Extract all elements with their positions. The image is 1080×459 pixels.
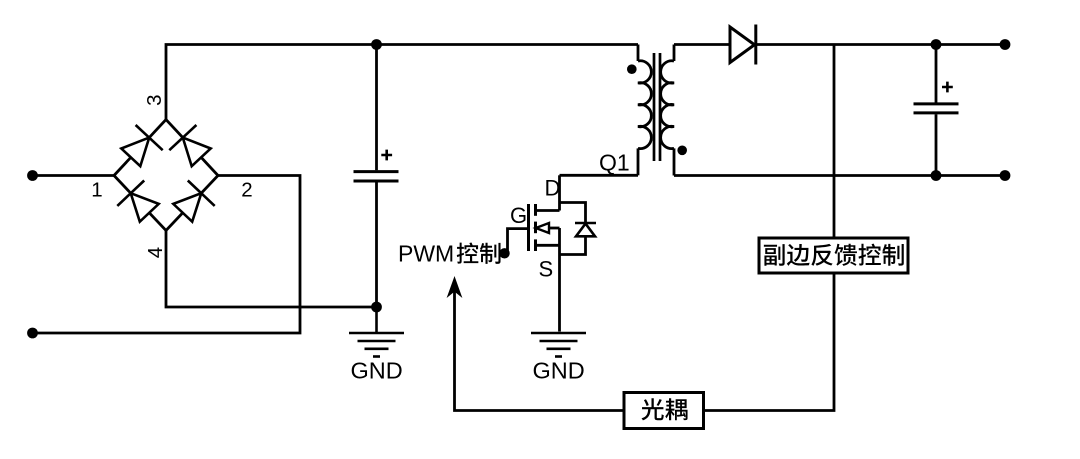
node: C1 bottom / GND junction <box>371 302 382 313</box>
svg-text:4: 4 <box>144 247 167 258</box>
svg-text:S: S <box>539 257 554 282</box>
svg-text:GND: GND <box>350 358 402 384</box>
transformer T1 primary winding <box>638 45 651 176</box>
node: output rail / C2 junction <box>931 39 942 50</box>
bridge diode bottom-right (4 to 2) <box>173 193 201 222</box>
wire diode cathode to output+ <box>756 43 1005 46</box>
box: optocoupler (光耦) <box>624 393 704 429</box>
MOSFET Q1 drain lead <box>558 175 561 210</box>
svg-text:1: 1 <box>91 179 102 202</box>
label 控制 (control) <box>457 243 479 264</box>
wire bridge node 3 to top rail to transformer primary <box>166 45 638 120</box>
transformer secondary polarity dot <box>677 146 687 156</box>
Q1 gate wire <box>508 229 529 251</box>
svg-text:D: D <box>545 176 561 201</box>
output rectifier diode D5 <box>730 25 756 65</box>
wire secondary top to diode <box>674 43 730 46</box>
svg-text:G: G <box>510 203 527 228</box>
bridge diode top-right (2 to 3) <box>183 138 211 167</box>
output terminal bottom <box>1000 170 1011 181</box>
transformer T1 secondary winding <box>661 45 674 176</box>
capacitor C1 (input bulk) <box>354 45 399 308</box>
PWM gate terminal dot <box>499 248 509 258</box>
node: C2 bottom junction <box>931 170 942 181</box>
wire transformer primary bottom to Q1 drain <box>560 174 639 177</box>
label 副边反馈控制 (secondary feedback control) <box>764 244 785 266</box>
Q1 body diode <box>560 203 597 255</box>
wire input bottom to bridge node 2 <box>33 176 301 334</box>
node: top rail / C1 junction <box>371 39 382 50</box>
svg-text:PWM: PWM <box>398 241 454 267</box>
transformer core <box>654 53 660 161</box>
bridge diode bottom-left (4 to 1) <box>131 193 159 222</box>
transformer primary polarity dot <box>627 64 637 74</box>
wire bridge node 4 down and right to GND node <box>166 231 377 308</box>
box: secondary feedback control (副边反馈控制) <box>759 238 908 273</box>
svg-text:3: 3 <box>143 94 166 105</box>
input terminal top <box>27 170 38 181</box>
C2 polarity plus <box>942 82 953 93</box>
wire secondary bottom rail <box>674 174 1005 177</box>
label 光耦 (optocoupler) <box>641 398 663 420</box>
ground GND1 <box>349 307 404 357</box>
bridge rectifier edges <box>114 120 218 231</box>
svg-text:Q1: Q1 <box>599 150 630 176</box>
ground GND2 (Q1 source) <box>531 333 586 357</box>
svg-text:GND: GND <box>532 358 584 384</box>
wire output rail to feedback box <box>833 45 836 239</box>
C1 polarity plus <box>381 150 392 161</box>
wire feedback box to optocoupler <box>704 273 835 411</box>
wire input top to bridge node 1 <box>33 174 115 177</box>
output terminal top <box>1000 39 1011 50</box>
input terminal bottom <box>27 328 38 339</box>
bridge diode top-left (1 to 3) <box>121 138 149 167</box>
PWM arrow (from optocoupler) <box>448 278 624 411</box>
MOSFET Q1 symbol <box>529 204 560 332</box>
svg-text:2: 2 <box>241 179 252 202</box>
capacitor C2 (output) <box>914 45 959 176</box>
